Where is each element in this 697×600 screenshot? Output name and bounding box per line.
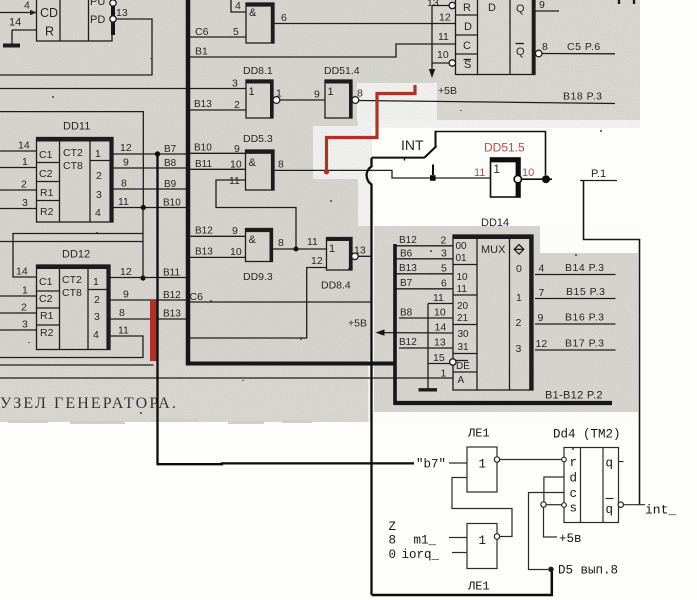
- paper scan area top-left: [0, 0, 436, 128]
- svg-text:1: 1: [93, 276, 99, 288]
- svg-text:MUX: MUX: [481, 244, 506, 256]
- paper scan area generator caption band: [0, 360, 368, 422]
- pin circle Dd4 r: [562, 457, 567, 462]
- svg-text:B12: B12: [399, 235, 417, 246]
- svg-text:8: 8: [357, 88, 363, 100]
- svg-text:C5 P.6: C5 P.6: [567, 41, 601, 53]
- net label P.1 with wire down to int node: [580, 168, 640, 505]
- switch INT: [372, 132, 437, 176]
- svg-text:int_: int_: [645, 503, 676, 518]
- svg-text:6: 6: [441, 278, 447, 290]
- wire DD5.3 output 8 toward INT line: [274, 170, 491, 178]
- svg-text:11: 11: [433, 292, 444, 304]
- svg-text:C2: C2: [39, 168, 53, 180]
- wire B13 to DD14 pin5: [397, 273, 454, 275]
- svg-text:1: 1: [276, 88, 282, 100]
- hand wire B7 vertical from junction down: [156, 154, 158, 464]
- wire long net to DD8.1 pin3: [0, 88, 246, 90]
- svg-text:8: 8: [389, 534, 397, 548]
- svg-text:2: 2: [516, 317, 522, 329]
- svg-text:9: 9: [314, 89, 320, 101]
- ragged scan edge dashes: [8, 419, 312, 424]
- thick frame bottom edge of DD14 zone: [394, 401, 613, 405]
- wire loop upper branch: [13, 234, 143, 278]
- +5B arrow into DD14 pin14: [348, 318, 453, 336]
- ground rail of DD14: [419, 304, 438, 390]
- wire c input from D5 node: [529, 493, 565, 570]
- svg-text:R: R: [45, 25, 54, 39]
- svg-text:14: 14: [16, 266, 28, 278]
- pin circle DD14 OE: [450, 359, 456, 365]
- svg-text:9: 9: [538, 312, 544, 324]
- svg-text:d: d: [570, 472, 578, 486]
- wire DD12 output 11 elbow: [0, 336, 143, 358]
- wire DD9.3 output to DD8.4 pin11: [273, 248, 327, 250]
- svg-text:B12: B12: [163, 290, 181, 301]
- wire DD12 input 1: [0, 295, 37, 297]
- svg-text:B13: B13: [399, 263, 417, 274]
- svg-text:r: r: [570, 456, 578, 470]
- svg-text:2: 2: [234, 99, 240, 111]
- wire qbar to int_: [624, 504, 646, 506]
- wire B8 to DD14 pin10: [399, 317, 453, 319]
- svg-text:B12: B12: [399, 337, 417, 348]
- svg-text:1: 1: [95, 148, 101, 160]
- pin circle Dd4 qbar: [618, 502, 623, 507]
- svg-text:1: 1: [22, 156, 28, 168]
- paper scan area DD14 zone: [374, 226, 540, 412]
- wire DD11 output 9 net B8: [113, 167, 186, 169]
- inverter DD8.4: [321, 238, 352, 292]
- svg-text:0: 0: [516, 263, 522, 275]
- node junction DD51.5 output: [542, 175, 550, 183]
- svg-text:CD: CD: [40, 6, 58, 20]
- svg-text:Q: Q: [516, 46, 525, 58]
- svg-text:B6: B6: [400, 249, 413, 260]
- svg-text:12: 12: [439, 12, 451, 24]
- svg-text:DD11: DD11: [63, 121, 90, 133]
- pin circle FF S: [449, 60, 455, 66]
- wire FF R to +5B rail: [432, 5, 449, 7]
- AND gate DD5.3: [243, 133, 274, 190]
- svg-text:4: 4: [24, 0, 30, 12]
- wire loop lower branch: [0, 241, 143, 243]
- counter DD12: [37, 249, 111, 350]
- svg-text:10: 10: [434, 307, 446, 319]
- svg-text:14: 14: [18, 140, 30, 152]
- inverter DD51.5: [474, 141, 534, 198]
- svg-text:C6: C6: [190, 291, 204, 303]
- node junction at switch contact: [430, 175, 436, 181]
- hand wire bottom return D5 to LE1 vertical: [372, 572, 552, 596]
- svg-text:2: 2: [21, 302, 27, 314]
- node junction D5: [548, 567, 553, 572]
- wire B7 to DD14 pin6: [397, 288, 454, 290]
- svg-text:+5B: +5B: [438, 85, 457, 97]
- svg-text:10: 10: [457, 272, 469, 283]
- svg-text:1: 1: [441, 368, 447, 380]
- svg-text:5: 5: [233, 26, 239, 38]
- AND gate DD9.3: [243, 229, 273, 284]
- wire DD11 input 2: [0, 189, 37, 191]
- svg-text:C2: C2: [39, 293, 53, 305]
- svg-text:B17 P.3: B17 P.3: [565, 338, 605, 350]
- wire DD5.3 pin11 from DD9.3 output node: [216, 180, 296, 249]
- svg-text:&: &: [249, 7, 257, 19]
- svg-text:B13: B13: [195, 247, 213, 258]
- svg-text:31: 31: [458, 342, 470, 353]
- svg-text:1: 1: [479, 458, 487, 472]
- svg-text:B9: B9: [164, 179, 177, 190]
- svg-text:8: 8: [121, 178, 127, 190]
- pin circle Dd4 s: [562, 503, 567, 508]
- wire DD11 output 8 net B9: [113, 188, 186, 190]
- wire feedback LE1 lower out to LE1 upper in2: [452, 478, 512, 537]
- hand wire vertical with hop over INT line: [367, 158, 372, 595]
- svg-text:iorq_: iorq_: [402, 548, 440, 562]
- svg-text:11: 11: [118, 325, 129, 337]
- svg-text:3: 3: [22, 319, 28, 331]
- svg-text:PU: PU: [90, 0, 105, 8]
- svg-text:m1_: m1_: [414, 534, 437, 548]
- svg-text:Z: Z: [389, 520, 397, 534]
- svg-text:R1: R1: [40, 187, 54, 199]
- svg-text:"b7": "b7": [416, 458, 446, 472]
- svg-text:C1: C1: [39, 149, 53, 161]
- svg-text:B11: B11: [195, 159, 212, 170]
- svg-text:C1: C1: [39, 276, 53, 288]
- D flip-flop DD13 (top, cut): [456, 0, 536, 75]
- svg-text:B1: B1: [195, 46, 208, 58]
- wire d input to +5v node: [544, 477, 564, 502]
- wire pin4 riser into AND gate: [231, 0, 246, 12]
- wire DD8.1 out to DD51.4 in: [280, 99, 325, 101]
- wire DD11 input 3: [0, 208, 37, 210]
- counter IC DD10 (top left, partially cut): [37, 0, 116, 41]
- svg-text:2: 2: [441, 235, 447, 247]
- svg-text:12: 12: [120, 266, 132, 278]
- svg-text:DD51.4: DD51.4: [324, 65, 360, 77]
- node junction on B11 row: [140, 275, 145, 280]
- svg-text:1: 1: [329, 243, 335, 255]
- wire floating node to s: [546, 504, 562, 506]
- erased white zone around red wire upper: [357, 83, 437, 121]
- wire ground rail to DD14 pin15 OE: [428, 363, 450, 365]
- svg-text:+5B: +5B: [348, 318, 367, 330]
- svg-text:00: 00: [456, 241, 468, 252]
- pin circle DD8.1 out: [273, 97, 280, 104]
- svg-text:11: 11: [457, 284, 468, 295]
- wire ground rail to DD14 pin11: [428, 303, 453, 305]
- svg-text:B14 P.3: B14 P.3: [565, 262, 605, 274]
- svg-text:D: D: [488, 2, 496, 14]
- svg-text:1: 1: [22, 285, 28, 297]
- svg-text:2: 2: [96, 170, 102, 182]
- inverter DD8.1: [243, 65, 273, 118]
- svg-text:10: 10: [437, 49, 449, 61]
- wire C6 net to vertical: [190, 301, 372, 303]
- svg-text:DE: DE: [456, 361, 470, 372]
- wire DD8.4 out to vertical: [358, 255, 371, 257]
- wire DD14 out 12 net B17 P.3: [535, 349, 616, 351]
- svg-text:6: 6: [281, 12, 287, 24]
- svg-text:B8: B8: [400, 308, 413, 319]
- svg-text:1: 1: [479, 534, 487, 548]
- wire left net to DD14 pin A: [0, 377, 453, 379]
- svg-text:B15 P.3: B15 P.3: [566, 286, 606, 298]
- svg-text:R2: R2: [40, 206, 54, 218]
- svg-text:1: 1: [516, 292, 522, 304]
- hand wire B7 horizontal to b7 label: [157, 462, 415, 465]
- svg-text:B11: B11: [163, 268, 180, 279]
- svg-text:10: 10: [522, 167, 534, 179]
- wire DD14 out 9 net B16 P.3: [535, 323, 616, 325]
- wire m1_ input: [449, 537, 467, 539]
- svg-text:DD12: DD12: [62, 249, 90, 261]
- bus thick vertical: [186, 0, 191, 365]
- inverter DD51.4: [324, 65, 360, 118]
- bottom drawn section, thin strokes: [389, 427, 677, 594]
- erased white zone around red wire lower: [313, 126, 373, 179]
- red patch wire annotation: [327, 85, 416, 172]
- red strap annotation (left): [150, 300, 157, 361]
- pin circle LE1 upper out: [494, 457, 499, 462]
- svg-text:+5в: +5в: [559, 532, 582, 546]
- wire DD12 input 3: [0, 329, 37, 331]
- counter DD11: [37, 121, 114, 223]
- red patch junction blob: [324, 169, 329, 174]
- svg-text:9: 9: [539, 0, 545, 11]
- paper noise overlay: [0, 0, 640, 422]
- svg-text:9: 9: [123, 289, 129, 301]
- svg-text:4: 4: [235, 0, 241, 12]
- svg-text:&: &: [249, 157, 257, 169]
- OR gate LE1 upper: [467, 447, 497, 492]
- wire B11 to DD5.3 pin10: [189, 168, 246, 170]
- svg-text:q: q: [606, 457, 614, 471]
- svg-text:C: C: [463, 40, 471, 52]
- wire pin4 into DD10: [0, 12, 37, 14]
- wire DD12 output 12 net B11: [110, 277, 186, 279]
- wire B1 to FF pin C: [189, 44, 456, 57]
- svg-text:8: 8: [278, 159, 284, 171]
- svg-text:B1-B12 P.2: B1-B12 P.2: [545, 390, 603, 402]
- svg-text:7: 7: [539, 287, 545, 299]
- svg-text:B8: B8: [164, 158, 177, 169]
- svg-text:9: 9: [123, 157, 129, 169]
- scan speckles: [28, 58, 602, 450]
- svg-text:30: 30: [458, 329, 470, 340]
- svg-text:13: 13: [434, 337, 446, 349]
- svg-text:9: 9: [232, 225, 238, 237]
- svg-text:2: 2: [21, 179, 27, 191]
- pin circle DD8.4 out: [352, 253, 359, 260]
- svg-text:B12: B12: [195, 226, 213, 237]
- svg-text:R: R: [463, 2, 471, 14]
- wire pin14 to ground: [12, 29, 37, 31]
- svg-text:DD8.1: DD8.1: [243, 65, 273, 77]
- svg-text:CT8: CT8: [62, 287, 82, 299]
- node junction B7: [155, 151, 160, 156]
- wire DD11 input 1: [0, 167, 37, 169]
- svg-text:S: S: [464, 59, 471, 71]
- pin circle FF Qbar: [535, 50, 542, 57]
- wire DD11 output 11 net B10: [113, 207, 186, 209]
- top edge cut marks: [618, 0, 620, 4]
- wire B6 to DD14 pin3: [397, 258, 454, 260]
- svg-text:9: 9: [234, 143, 240, 155]
- svg-text:D5 вып.8: D5 вып.8: [558, 564, 618, 578]
- svg-text:0: 0: [389, 548, 397, 562]
- svg-text:Dd4 (ТМ2): Dd4 (ТМ2): [553, 428, 621, 442]
- svg-text:B10: B10: [163, 198, 181, 209]
- svg-text:11: 11: [307, 236, 318, 248]
- node junction B10: [141, 205, 146, 210]
- AND gate DD9.1 top: [246, 3, 274, 43]
- svg-text:4: 4: [539, 263, 545, 275]
- wire node-B7 branch upper (outer box to DD11 B10 junction): [0, 112, 143, 208]
- wire b7 label to gate OR1: [449, 462, 467, 464]
- svg-text:INT: INT: [401, 137, 424, 153]
- wire pin13 net to enclosure: [0, 19, 152, 75]
- svg-text:DD5.3: DD5.3: [243, 133, 273, 145]
- svg-text:8: 8: [278, 237, 284, 249]
- svg-text:1: 1: [249, 86, 255, 98]
- OR gate LE1 lower: [467, 524, 497, 569]
- svg-text:q: q: [606, 503, 614, 517]
- svg-text:CT8: CT8: [63, 160, 83, 172]
- pin circle LE1 lower out: [494, 534, 499, 539]
- svg-text:14: 14: [435, 322, 447, 334]
- wire DD12 output 9 net B12: [110, 299, 186, 301]
- svg-text:4: 4: [95, 207, 101, 219]
- wire B10 to DD5.3 pin9: [189, 152, 246, 154]
- svg-text:11: 11: [474, 167, 485, 179]
- white right strip: [640, 0, 697, 600]
- paper scan area mid-left: [0, 128, 372, 360]
- wire DD12 input 2: [0, 312, 37, 314]
- wire floating node to +5v label: [544, 507, 558, 537]
- wire DD11 output 12 net B7: [113, 153, 186, 155]
- wire LE1 upper out to Dd4 r: [500, 459, 562, 461]
- svg-text:DD51.5: DD51.5: [484, 141, 525, 155]
- svg-text:B13: B13: [194, 99, 212, 110]
- svg-text:ЛЕ1: ЛЕ1: [467, 580, 490, 594]
- svg-text:12: 12: [536, 338, 548, 350]
- svg-text:R2: R2: [40, 327, 54, 339]
- svg-text:B7: B7: [164, 144, 177, 155]
- pin circle PD: [110, 16, 116, 22]
- svg-text:2: 2: [94, 294, 100, 306]
- wire AND output 6 to FF pin D: [274, 23, 456, 25]
- thick connector to DD14 frame: [186, 362, 395, 366]
- pin circle floating node: [541, 502, 546, 507]
- svg-text:14: 14: [9, 17, 21, 29]
- svg-text:R1: R1: [40, 310, 54, 322]
- svg-text:1: 1: [328, 86, 334, 98]
- svg-text:12: 12: [311, 255, 323, 267]
- wire B13 to DD9.3 pin10: [189, 256, 246, 258]
- wire B12 to DD9.3 pin9: [189, 235, 246, 237]
- svg-text:s: s: [570, 502, 578, 516]
- paper scan area top-right band: [436, 0, 640, 122]
- svg-text:ЛЕ1: ЛЕ1: [467, 427, 490, 441]
- svg-text:15: 15: [433, 352, 445, 364]
- pin circle DD51.4 out: [352, 97, 359, 104]
- wire DD8.4 pin12 elbow down to bus row: [188, 268, 327, 339]
- svg-text:4: 4: [93, 329, 99, 341]
- wire DD14 out 4 net B14 P.3: [535, 274, 616, 276]
- wire FF S to +5B rail: [432, 62, 449, 64]
- wire B10 vertical down to B11 row: [142, 208, 144, 279]
- ground symbol: [3, 30, 20, 46]
- wire C6 to AND pin5: [189, 36, 246, 38]
- svg-text:01: 01: [456, 253, 468, 264]
- svg-text:c: c: [570, 487, 578, 501]
- thick frame left edge of DD14 zone: [393, 244, 397, 405]
- erased white zone around INT: [358, 120, 697, 226]
- multiplexer DD14: [453, 217, 533, 390]
- svg-text:21: 21: [457, 313, 469, 324]
- wire DD11 input 14: [0, 150, 37, 152]
- +5B supply arrow at FF: [429, 6, 457, 98]
- svg-text:CT2: CT2: [63, 147, 83, 159]
- svg-text:11: 11: [229, 175, 240, 187]
- svg-text:A: A: [458, 375, 465, 386]
- wire FF Q output 9: [536, 10, 560, 12]
- svg-text:13: 13: [116, 7, 128, 19]
- wire DD14 out 7 net B15 P.3: [535, 298, 616, 300]
- wire DD51.5 out to node: [522, 178, 553, 180]
- svg-text:11: 11: [438, 31, 449, 43]
- svg-text:УЗЕЛ ГЕНЕРАТОРА.: УЗЕЛ ГЕНЕРАТОРА.: [0, 395, 178, 412]
- node junction DD9.3 out: [294, 247, 299, 252]
- svg-text:10: 10: [230, 246, 242, 258]
- svg-text:12: 12: [120, 142, 132, 154]
- wire q stub: [619, 461, 624, 463]
- wire B12 to DD14 pin2: [397, 245, 454, 247]
- svg-text:13: 13: [354, 245, 366, 257]
- svg-text:3: 3: [232, 78, 238, 90]
- svg-text:3: 3: [516, 343, 522, 355]
- svg-text:3: 3: [94, 311, 100, 323]
- svg-text:CT2: CT2: [62, 274, 82, 286]
- svg-text:B7: B7: [400, 278, 413, 289]
- svg-text:DD14: DD14: [481, 217, 509, 229]
- svg-text:DD9.3: DD9.3: [243, 271, 273, 283]
- svg-text:B18 P.3: B18 P.3: [563, 91, 603, 103]
- svg-text:3: 3: [441, 248, 447, 260]
- svg-text:8: 8: [119, 307, 125, 319]
- svg-text:1: 1: [494, 164, 500, 176]
- svg-text:P.1: P.1: [591, 168, 606, 180]
- pin circle FF R: [449, 2, 455, 8]
- wire FF Qbar output 8 net C5 P.6: [542, 53, 615, 55]
- wire switch top to DD51.5 output node: [435, 132, 546, 176]
- pin circle PU: [110, 0, 116, 6]
- svg-text:PD: PD: [90, 14, 105, 26]
- svg-text:B13: B13: [163, 309, 181, 320]
- wire B13 to DD8.1 pin2: [189, 109, 246, 111]
- svg-text:11: 11: [118, 196, 129, 208]
- svg-text:8: 8: [542, 41, 548, 53]
- white bottom area: [0, 422, 697, 600]
- svg-text:13: 13: [427, 0, 439, 9]
- svg-text:5: 5: [441, 263, 447, 275]
- wire DD51.4 out long net B18 P.3: [359, 101, 615, 104]
- wire left net into red strap: [0, 364, 154, 366]
- svg-text:B10: B10: [194, 143, 212, 154]
